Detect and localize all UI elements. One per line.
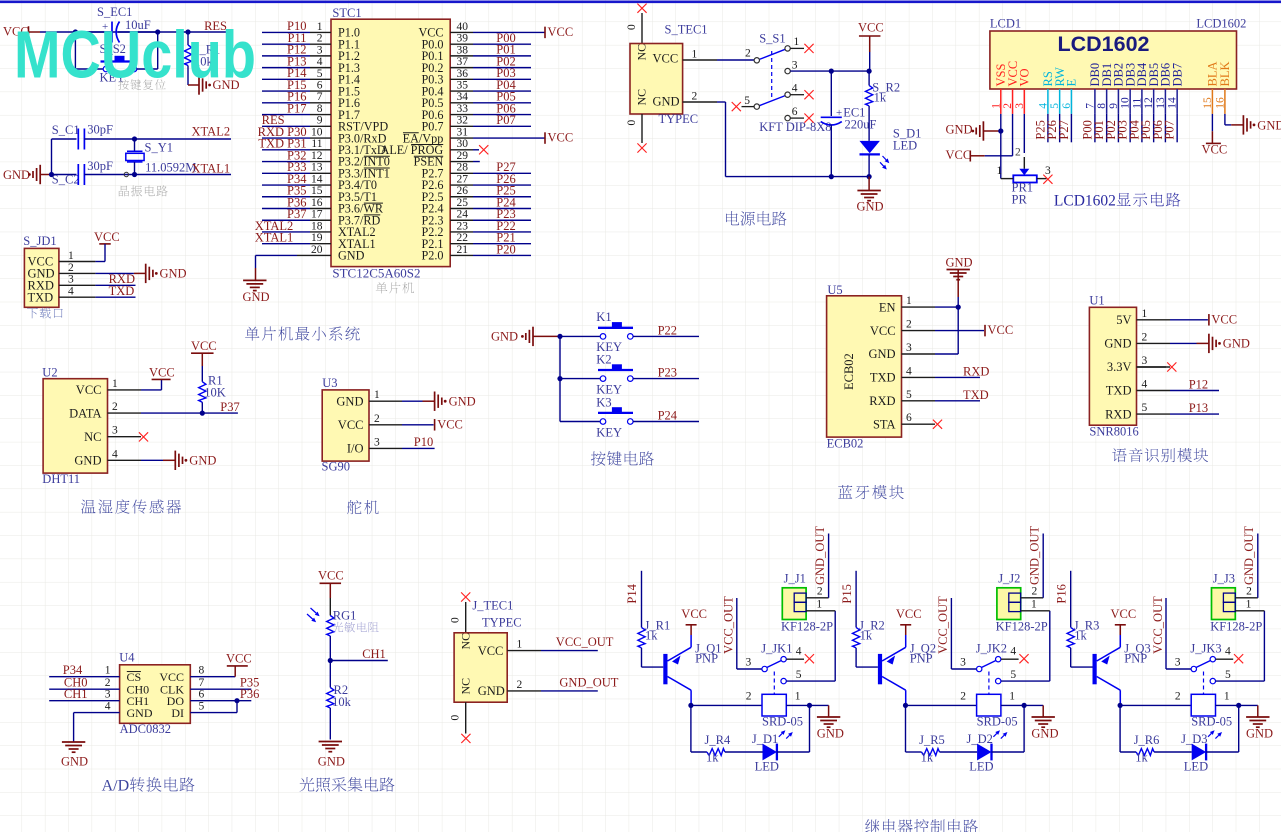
svg-text:GND: GND <box>243 290 270 304</box>
svg-text:1: 1 <box>112 378 118 390</box>
pin 1 of S_JD1 <box>59 261 96 263</box>
svg-text:GND: GND <box>3 168 30 182</box>
svg-text:1: 1 <box>105 665 111 677</box>
pin 1 of J_J <box>806 610 835 612</box>
caption jing-zhen-dian-lu (crystal) <box>119 186 129 197</box>
svg-text:GND: GND <box>189 453 216 467</box>
svg-text:2: 2 <box>1175 691 1181 703</box>
svg-text:U1: U1 <box>1089 294 1104 308</box>
svg-text:PNP: PNP <box>1124 652 1147 666</box>
svg-text:GND: GND <box>449 394 476 408</box>
switch lever <box>1196 661 1211 668</box>
wire <box>1059 114 1061 142</box>
svg-text:3: 3 <box>1045 165 1051 177</box>
svg-text:RXD: RXD <box>869 394 895 408</box>
svg-text:1: 1 <box>374 389 380 401</box>
svg-text:6: 6 <box>906 412 912 424</box>
svg-text:TXD: TXD <box>28 290 54 304</box>
wire net P13 <box>1170 413 1219 415</box>
svg-text:31: 31 <box>457 126 469 138</box>
node junction <box>867 174 872 179</box>
ground (U3) <box>402 400 423 402</box>
pin 3 of S_JD1 <box>59 284 96 286</box>
svg-text:5: 5 <box>1142 402 1148 414</box>
svg-text:P27: P27 <box>1057 120 1071 139</box>
caption guang-zhao-cai-ji-dian-lu <box>300 777 315 792</box>
svg-text:P36: P36 <box>240 687 259 701</box>
node junction <box>807 703 812 708</box>
relay link dashed <box>988 672 990 695</box>
power port VCC (U2) <box>141 389 162 391</box>
pin 2 of J_J, net GND_OUT <box>1021 597 1043 599</box>
svg-text:GND: GND <box>817 727 844 741</box>
caption dan-pian-ji-zui-xiao-xi-tong <box>245 327 259 341</box>
no-ERC (U5 STA) <box>933 420 942 429</box>
svg-text:11: 11 <box>311 138 322 150</box>
wire to K3 <box>560 421 600 423</box>
svg-text:2: 2 <box>960 691 966 703</box>
pin 28 of STC1 <box>450 172 473 174</box>
svg-text:26: 26 <box>457 185 469 197</box>
svg-text:4: 4 <box>796 646 802 658</box>
wire VCC pin2 <box>1012 114 1014 156</box>
svg-text:GND: GND <box>318 755 345 769</box>
pin 2 of J_J, net GND_OUT <box>1235 597 1258 599</box>
wire net P36 <box>190 700 251 702</box>
svg-text:VCC: VCC <box>191 339 217 353</box>
svg-text:5V: 5V <box>1116 313 1131 327</box>
svg-text:VCC: VCC <box>548 130 574 144</box>
wire <box>1129 114 1131 142</box>
svg-text:28: 28 <box>457 162 469 174</box>
wire net P23 <box>633 378 699 380</box>
wire JK pin5 <box>1216 680 1265 682</box>
svg-text:DATA: DATA <box>69 406 101 420</box>
wire <box>1001 704 1024 706</box>
ground (LCD BLK) <box>1224 114 1226 125</box>
wire coil rail <box>691 704 762 706</box>
svg-text:3: 3 <box>906 342 912 354</box>
svg-text:VCC: VCC <box>896 607 922 621</box>
wire JK pin5 <box>786 680 835 682</box>
svg-text:GND: GND <box>336 394 363 408</box>
svg-text:P37: P37 <box>220 400 239 414</box>
pin 34 of STC1 <box>450 102 473 104</box>
wire to K1 <box>560 335 600 337</box>
svg-text:0: 0 <box>450 617 462 623</box>
relay coil SRD-05 (1) <box>762 694 786 716</box>
pin 1 of J_TEC1, net VCC_OUT <box>507 650 541 652</box>
svg-text:DHT11: DHT11 <box>42 472 80 486</box>
svg-text:VCC: VCC <box>94 230 120 244</box>
wire <box>1070 114 1072 142</box>
svg-text:GND: GND <box>869 347 896 361</box>
svg-text:37: 37 <box>457 56 469 68</box>
svg-text:1: 1 <box>816 599 822 611</box>
caption lan-ya-mo-kuai (bluetooth) <box>838 485 852 499</box>
node junction <box>155 29 160 34</box>
resistor J_R3 1k <box>1067 627 1074 648</box>
node junction <box>829 69 834 74</box>
svg-text:P13: P13 <box>1189 401 1208 415</box>
relay link dashed <box>1203 672 1205 695</box>
node junction <box>1236 703 1241 708</box>
svg-text:39: 39 <box>457 33 469 45</box>
svg-text:6: 6 <box>317 80 323 92</box>
pin 1 of J_J <box>1021 610 1050 612</box>
svg-text:30pF: 30pF <box>87 123 113 137</box>
svg-text:10K: 10K <box>204 386 226 400</box>
wire JK pin5 <box>1001 680 1050 682</box>
pin 4 of STC1 <box>262 67 310 69</box>
svg-text:LED: LED <box>1184 760 1208 774</box>
wire <box>1047 114 1049 142</box>
node junction <box>867 69 872 74</box>
svg-text:2: 2 <box>68 262 74 274</box>
svg-text:NC: NC <box>635 89 649 106</box>
svg-text:LCD1: LCD1 <box>990 16 1021 30</box>
node junction <box>234 698 239 703</box>
wire coil rail <box>1120 704 1191 706</box>
pin 2 of S_TEC1 <box>683 101 717 103</box>
svg-text:GND: GND <box>857 200 884 214</box>
pin 7 of STC1 <box>262 102 310 104</box>
svg-text:5: 5 <box>1225 669 1231 681</box>
svg-text:KF128-2P: KF128-2P <box>996 620 1048 634</box>
svg-text:VCC: VCC <box>318 569 344 583</box>
svg-text:U3: U3 <box>322 376 337 390</box>
svg-text:J_R5: J_R5 <box>919 733 945 747</box>
svg-text:4: 4 <box>1225 646 1231 658</box>
svg-text:4: 4 <box>792 83 798 95</box>
pin 1 of S_TEC1 <box>683 59 717 61</box>
caption wen-shi-du-chuan-gan-qi (DHT11) <box>81 500 95 514</box>
svg-text:GND_OUT: GND_OUT <box>1028 526 1042 585</box>
wire net CH0 <box>49 688 119 690</box>
svg-text:GND: GND <box>946 123 973 137</box>
wire <box>1206 751 1239 753</box>
svg-text:K3: K3 <box>596 395 611 409</box>
wire <box>1164 114 1166 142</box>
pin 16 of STC1 <box>262 208 310 210</box>
svg-text:PNP: PNP <box>910 652 933 666</box>
svg-text:VCC_OUT: VCC_OUT <box>1151 596 1165 654</box>
power port VCC (U1) <box>1170 319 1208 321</box>
node junction <box>132 136 137 141</box>
wire <box>1117 114 1119 142</box>
svg-text:4: 4 <box>112 448 118 460</box>
svg-text:U4: U4 <box>119 651 135 665</box>
ground (R2) <box>319 741 342 743</box>
svg-text:GND: GND <box>946 256 973 270</box>
svg-text:XTAL2: XTAL2 <box>192 125 231 139</box>
svg-text:3.3V: 3.3V <box>1107 360 1132 374</box>
power port VCC (LCD BLA) <box>1211 114 1213 131</box>
resistor S_R2 1k <box>868 71 870 85</box>
svg-text:RG1: RG1 <box>333 609 357 623</box>
ground (S_JD1 pin2) <box>95 272 133 274</box>
svg-text:SRD-05: SRD-05 <box>762 715 803 729</box>
svg-text:1: 1 <box>997 165 1003 177</box>
svg-text:VCC: VCC <box>548 25 574 39</box>
svg-text:3: 3 <box>960 657 966 669</box>
node junction <box>132 172 137 177</box>
svg-text:2: 2 <box>517 679 523 691</box>
svg-text:TXD: TXD <box>963 388 989 402</box>
svg-text:S_JD1: S_JD1 <box>23 234 56 248</box>
svg-text:P15: P15 <box>840 584 854 603</box>
caption dan-pian-ji (MCU) <box>376 282 388 293</box>
svg-text:GND: GND <box>61 755 88 769</box>
pin 27 of STC1 <box>450 184 473 186</box>
pin 12 of STC1 <box>262 161 310 163</box>
ground (relay 3) <box>1239 704 1258 706</box>
svg-text:KF128-2P: KF128-2P <box>781 620 833 634</box>
svg-text:J_JK2: J_JK2 <box>976 642 1007 656</box>
svg-text:VCC: VCC <box>338 418 364 432</box>
svg-text:MCUclub: MCUclub <box>14 18 256 93</box>
svg-text:19: 19 <box>311 232 323 244</box>
wire to base <box>1071 666 1093 668</box>
wire <box>1094 114 1096 142</box>
wire net P37 <box>141 412 238 414</box>
svg-text:1: 1 <box>68 250 74 262</box>
svg-text:5: 5 <box>906 389 912 401</box>
no-ERC (J_TEC1 top) <box>461 592 470 601</box>
svg-text:GND: GND <box>1031 727 1058 741</box>
svg-text:35: 35 <box>457 80 469 92</box>
svg-text:GND_OUT: GND_OUT <box>813 526 827 585</box>
svg-text:25: 25 <box>457 197 469 209</box>
pin 36 of STC1 <box>450 78 473 80</box>
svg-text:J_R4: J_R4 <box>705 733 731 747</box>
svg-text:1k: 1k <box>874 91 887 105</box>
svg-text:2: 2 <box>746 691 752 703</box>
ground (relay 1) <box>810 704 829 706</box>
wire P14 <box>641 571 643 628</box>
pin 11 of STC1 <box>262 149 310 151</box>
svg-text:SRD-05: SRD-05 <box>977 715 1018 729</box>
pin 30 of STC1 <box>450 149 473 151</box>
wire <box>737 668 762 670</box>
svg-text:DI: DI <box>171 706 184 720</box>
svg-text:23: 23 <box>457 220 469 232</box>
pin 25 of STC1 <box>450 208 473 210</box>
pin 3 of STC1 <box>262 55 310 57</box>
wire <box>137 68 158 70</box>
svg-text:1: 1 <box>906 295 912 307</box>
node junction <box>956 305 961 310</box>
svg-text:P24: P24 <box>658 409 678 423</box>
svg-text:1: 1 <box>317 21 323 33</box>
pin 2 of J_J, net GND_OUT <box>806 597 829 599</box>
svg-text:S_TEC1: S_TEC1 <box>665 23 708 37</box>
svg-text:1k: 1k <box>1135 751 1148 765</box>
svg-text:VCC_OUT: VCC_OUT <box>556 635 614 649</box>
pin 21 of STC1 <box>450 254 473 256</box>
pin 1 of J_J <box>1235 610 1264 612</box>
svg-text:VCC: VCC <box>681 607 707 621</box>
svg-text:4: 4 <box>1010 646 1016 658</box>
svg-text:VCC_OUT: VCC_OUT <box>936 596 950 654</box>
caption guang-min-dian-zu (photoresistor) <box>333 622 344 632</box>
no-ERC mark pin30 <box>479 145 488 154</box>
svg-text:GND: GND <box>127 706 153 720</box>
svg-text:P20: P20 <box>496 242 515 256</box>
wire EN to gnd rail <box>935 306 958 308</box>
wire + no-ERC (S_S1 pin6) <box>790 117 804 119</box>
wire + no-ERC (JK pin4) <box>1216 658 1234 660</box>
svg-text:PR: PR <box>1012 193 1028 207</box>
svg-text:LED: LED <box>755 760 779 774</box>
svg-text:2: 2 <box>906 319 912 331</box>
pin 13 of STC1 <box>262 172 310 174</box>
svg-text:2: 2 <box>1142 331 1148 343</box>
svg-text:U2: U2 <box>42 366 57 380</box>
svg-text:4: 4 <box>1142 379 1148 391</box>
svg-text:GND: GND <box>1257 118 1281 132</box>
transistor J_Q3 PNP <box>1093 654 1097 684</box>
svg-text:220uF: 220uF <box>845 118 877 132</box>
svg-text:K1: K1 <box>596 310 611 324</box>
wire net TXD <box>935 400 980 402</box>
svg-text:VCC: VCC <box>1111 607 1137 621</box>
power port VCC (pin40) <box>544 27 546 39</box>
svg-text:30pF: 30pF <box>87 159 113 173</box>
svg-text:4: 4 <box>68 286 74 298</box>
svg-text:TXD: TXD <box>1106 384 1132 398</box>
node junction <box>49 172 54 177</box>
wire XTAL1 <box>135 174 232 176</box>
svg-text:LCD1602: LCD1602 <box>1057 32 1149 56</box>
svg-text:1k: 1k <box>645 629 658 643</box>
pin 32 of STC1 <box>450 125 473 127</box>
svg-text:3: 3 <box>374 436 380 448</box>
svg-text:1: 1 <box>517 639 523 651</box>
svg-text:GND: GND <box>74 454 101 468</box>
wire coil rail <box>906 704 977 706</box>
svg-text:36: 36 <box>457 68 469 80</box>
svg-text:J_R6: J_R6 <box>1134 733 1160 747</box>
pin 18 of STC1 <box>262 231 310 233</box>
caption an-jian-dian-lu (buttons) <box>591 451 606 465</box>
wire <box>559 336 561 421</box>
svg-text:4: 4 <box>105 701 111 713</box>
switch lever <box>981 661 996 668</box>
svg-text:3: 3 <box>1142 355 1148 367</box>
no-ERC (S_S1 pin5) <box>742 106 755 108</box>
svg-text:ADC0832: ADC0832 <box>120 722 171 736</box>
wire to base <box>856 666 878 668</box>
svg-text:GND: GND <box>338 249 365 263</box>
pin 2 of STC1 <box>262 43 310 45</box>
svg-text:1: 1 <box>794 36 800 48</box>
svg-text:S_S1: S_S1 <box>759 32 785 46</box>
wire <box>1153 114 1155 142</box>
pin 4 of S_JD1 <box>59 296 96 298</box>
svg-text:S_C1: S_C1 <box>52 123 80 137</box>
svg-text:P2.0: P2.0 <box>421 249 443 263</box>
svg-text:DB7: DB7 <box>1170 63 1184 87</box>
svg-text:16: 16 <box>311 197 323 209</box>
ground (STC1) <box>255 268 257 280</box>
wire <box>1216 704 1239 706</box>
svg-text:8: 8 <box>317 103 323 115</box>
svg-text:P3.3/INT1: P3.3/INT1 <box>338 166 390 180</box>
no-ERC mark (S_TEC1 bottom) <box>637 143 646 152</box>
svg-text:NC: NC <box>459 633 473 650</box>
node junction <box>557 376 562 381</box>
svg-text:5: 5 <box>796 669 802 681</box>
capacitor EC1 220uF <box>830 71 832 116</box>
svg-text:7: 7 <box>199 677 205 689</box>
svg-text:34: 34 <box>457 91 469 103</box>
wire gnd rail <box>717 101 726 103</box>
node junction <box>1118 703 1123 708</box>
svg-text:LCD1602: LCD1602 <box>1054 193 1116 210</box>
svg-text:VCC: VCC <box>1202 143 1228 157</box>
svg-text:6: 6 <box>199 689 205 701</box>
photoresistor RG1 <box>327 616 334 637</box>
svg-text:GND_OUT: GND_OUT <box>559 676 618 690</box>
pin 6 of STC1 <box>262 90 310 92</box>
relay coil SRD-05 (3) <box>1191 694 1215 716</box>
svg-text:21: 21 <box>457 244 469 256</box>
pin 8 of STC1 <box>262 114 310 116</box>
transistor J_Q2 PNP <box>878 654 882 684</box>
svg-text:NC: NC <box>84 430 101 444</box>
svg-text:GND: GND <box>1246 727 1273 741</box>
pin 14 of STC1 <box>262 184 310 186</box>
resistor J_R2 1k <box>853 627 860 648</box>
svg-text:VCC: VCC <box>653 52 679 66</box>
wire <box>951 668 976 670</box>
svg-text:VCC: VCC <box>76 383 102 397</box>
svg-text:1: 1 <box>795 691 801 703</box>
svg-text:5: 5 <box>744 95 750 107</box>
svg-text:1: 1 <box>1224 691 1230 703</box>
svg-text:GND: GND <box>653 95 680 109</box>
power port VCC (U3) <box>402 424 434 426</box>
svg-text:GND: GND <box>1104 337 1131 351</box>
wire net CH1 <box>49 700 119 702</box>
svg-text:J_J1: J_J1 <box>784 572 806 586</box>
caption yu-yin-shi-bie-mo-kuai (voice) <box>1112 448 1126 462</box>
svg-text:7: 7 <box>317 91 323 103</box>
pin 39 of STC1 <box>450 43 473 45</box>
wire to K2 <box>560 378 600 380</box>
svg-text:29: 29 <box>457 150 469 162</box>
no-ERC (U2 NC) <box>139 432 148 441</box>
wire P16 <box>1070 571 1072 628</box>
ground (power circuit) <box>868 177 870 191</box>
svg-text:RXD: RXD <box>963 364 989 378</box>
resistor J_R6 1k <box>1119 705 1121 752</box>
svg-text:3: 3 <box>792 60 798 72</box>
resistor S_R1 10k <box>187 32 189 45</box>
svg-text:40: 40 <box>457 21 469 33</box>
no-ERC (PR1 pin3) <box>1043 175 1052 184</box>
svg-text:P16: P16 <box>1054 584 1068 603</box>
svg-text:VCC: VCC <box>858 21 884 35</box>
svg-text:3: 3 <box>68 274 74 286</box>
svg-text:1: 1 <box>1142 308 1148 320</box>
pin 17 of STC1 <box>262 219 310 221</box>
ground (relay 2) <box>1024 704 1043 706</box>
svg-text:U5: U5 <box>827 283 842 297</box>
svg-text:VCC_OUT: VCC_OUT <box>722 596 736 654</box>
relay coil SRD-05 (2) <box>977 694 1001 716</box>
